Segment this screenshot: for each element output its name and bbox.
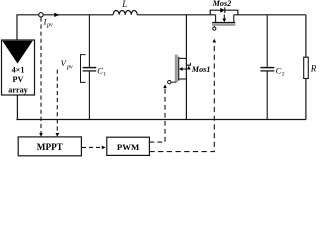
inductor L — [113, 11, 137, 15]
wire right drop upper — [305, 15, 307, 57]
svg-text:R: R — [310, 64, 316, 74]
svg-text:array: array — [8, 85, 28, 94]
body diode small — [187, 64, 191, 66]
svg-text:C: C — [276, 66, 282, 76]
wire right drop lower — [305, 79, 307, 120]
svg-text:pv: pv — [66, 64, 73, 70]
body arrow — [223, 14, 225, 19]
gate lead + terminal — [171, 81, 176, 83]
wire top rail right segment — [234, 14, 306, 16]
svg-text:PWM: PWM — [117, 142, 140, 152]
capacitor C1 — [83, 15, 107, 120]
svg-text:2: 2 — [282, 71, 285, 77]
wire top rail mid segment — [137, 14, 215, 16]
Vpv bracket — [81, 55, 86, 83]
dashed PWM to Mos2 gate — [149, 42, 214, 152]
gate bar gray — [212, 23, 235, 26]
svg-text:pv: pv — [46, 23, 53, 29]
wire top rail left segment — [17, 15, 113, 40]
wire PV bottom lead — [16, 95, 18, 120]
main branch — [185, 15, 187, 120]
svg-text:Mos2: Mos2 — [212, 0, 232, 8]
gate bar gray — [175, 55, 178, 83]
MPPT block — [18, 137, 81, 156]
capacitor C2 — [260, 15, 284, 120]
dashed Ipv sense line — [40, 17, 42, 133]
transistor Mos2 — [210, 0, 238, 30]
source stub — [233, 15, 235, 22]
svg-text:MPPT: MPPT — [37, 142, 63, 152]
node Ipv circle — [39, 13, 43, 17]
arrow current direction — [54, 13, 59, 17]
svg-text:4×1: 4×1 — [12, 66, 25, 75]
body arrow — [182, 68, 187, 70]
body diode loop — [210, 10, 238, 15]
dashed PWM to Mos1 gate — [149, 88, 165, 142]
drain stub — [179, 57, 187, 59]
svg-text:1: 1 — [103, 71, 106, 77]
channel line — [178, 57, 180, 81]
diode — [220, 8, 224, 13]
svg-text:PV: PV — [13, 75, 24, 84]
dashed MPPT to PWM — [82, 146, 102, 148]
channel line — [212, 21, 235, 23]
dashed Vpv sense line — [56, 70, 58, 134]
drain stub — [215, 15, 217, 22]
svg-text:L: L — [121, 0, 127, 9]
PV array — [2, 40, 35, 95]
svg-text:C: C — [97, 66, 103, 76]
gate lead + terminal — [213, 26, 215, 27]
wire bottom rail — [16, 119, 306, 121]
source stub — [179, 78, 187, 80]
resistor R — [304, 57, 309, 78]
PWM block — [107, 137, 150, 155]
transistor Mos1 — [168, 15, 211, 120]
svg-text:Mos1: Mos1 — [191, 65, 211, 74]
